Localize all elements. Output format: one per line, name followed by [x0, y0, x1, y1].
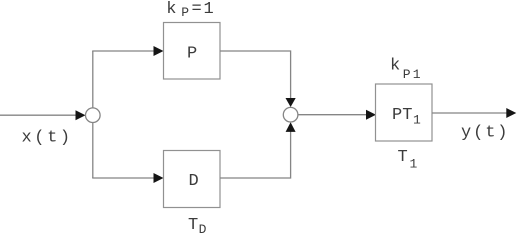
svg-text:1: 1 [410, 157, 418, 172]
wire branch vertical lower [92, 123, 94, 179]
wire branch vertical upper [92, 51, 94, 108]
wire input x(t) [0, 114, 77, 116]
svg-text:=1: =1 [192, 0, 216, 19]
svg-text:x(t): x(t) [22, 129, 73, 148]
arrowhead output [506, 108, 516, 118]
svg-text:D: D [189, 172, 199, 191]
svg-text:k: k [390, 56, 400, 75]
arrowhead down into summing junction [286, 98, 296, 107]
arrowhead into PT1 [366, 110, 376, 120]
node A branch circle [86, 108, 101, 123]
block P [164, 23, 221, 80]
arrowhead into D [154, 173, 164, 183]
wire lower branch to D [92, 177, 154, 179]
svg-text:P: P [187, 44, 197, 63]
svg-text:k: k [166, 0, 176, 19]
svg-text:PT: PT [392, 106, 412, 125]
block PT1 [376, 84, 433, 141]
wire junction to PT1 [298, 114, 367, 116]
svg-text:1: 1 [413, 113, 421, 128]
svg-text:y(t): y(t) [461, 123, 509, 142]
wire upper branch to P [92, 50, 154, 52]
arrowhead up into summing junction [286, 122, 296, 132]
wire P output [220, 51, 291, 99]
svg-text:T: T [188, 216, 198, 234]
svg-text:P1: P1 [403, 67, 423, 82]
svg-text:T: T [398, 148, 408, 167]
wire D output [220, 131, 291, 178]
summing junction circle [283, 107, 298, 122]
wire output y(t) [432, 112, 508, 114]
svg-text:P: P [181, 5, 189, 20]
svg-text:D: D [199, 222, 207, 234]
block D [164, 151, 221, 208]
arrowhead into P [154, 46, 164, 56]
arrowhead into node A [76, 110, 86, 120]
